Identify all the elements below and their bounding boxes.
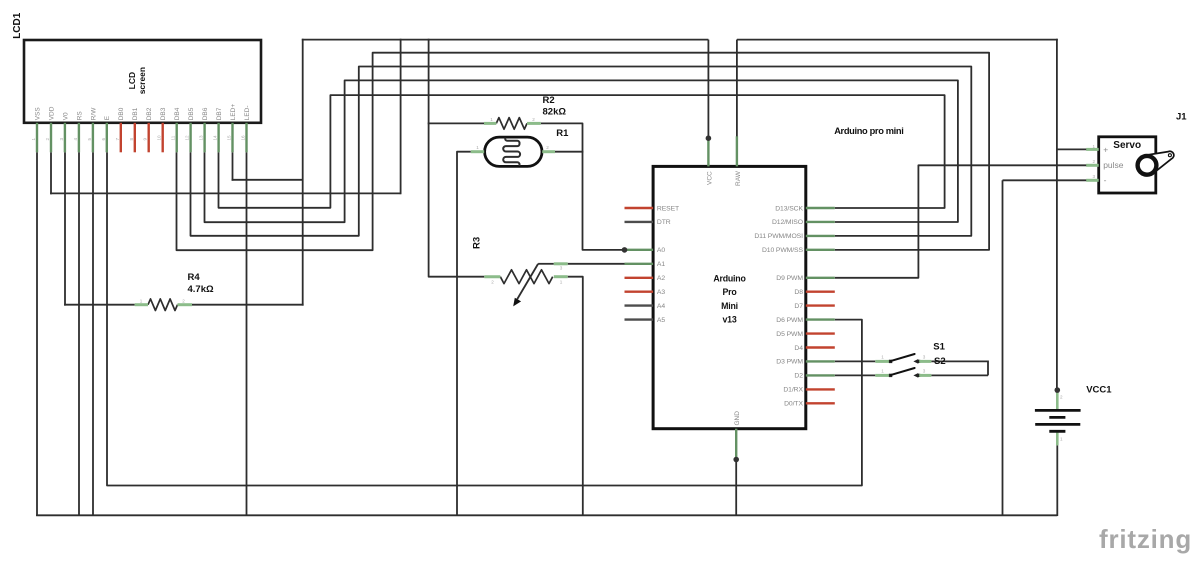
wire servo - pin left xyxy=(1003,179,1087,181)
svg-text:2: 2 xyxy=(1092,159,1095,164)
svg-text:5: 5 xyxy=(87,138,92,141)
svg-text:D3 PWM: D3 PWM xyxy=(776,359,803,366)
svg-text:Arduino pro mini: Arduino pro mini xyxy=(834,126,903,136)
LCD1 pin 11 leg (DB4) xyxy=(175,123,177,153)
switch S1 stub pin3 xyxy=(919,360,931,363)
svg-text:DB0: DB0 xyxy=(118,107,125,120)
svg-text:RAW: RAW xyxy=(735,170,742,186)
wire LCD R/W pin5 to GND bus xyxy=(92,152,94,516)
svg-text:2: 2 xyxy=(45,138,50,141)
svg-text:V0: V0 xyxy=(62,112,69,120)
svg-text:DB6: DB6 xyxy=(202,107,209,120)
battery VCC1 plate long top xyxy=(1035,409,1081,412)
svg-text:12: 12 xyxy=(185,135,190,141)
servo horn arm tip hole xyxy=(1168,154,1171,157)
svg-text:+: + xyxy=(1103,145,1108,155)
wire LCD VSS pin1 to GND bus (vertical) xyxy=(36,152,38,516)
svg-text:1: 1 xyxy=(31,138,36,141)
Arduino pin VCC leg xyxy=(707,137,709,166)
wire R3 pin1 right then down to GND bus xyxy=(568,277,583,516)
svg-text:D13/SCK: D13/SCK xyxy=(775,205,803,212)
wire S1 pin3 right xyxy=(931,360,988,362)
wire LCD V0 pin3 down to R4 xyxy=(64,152,66,305)
wire battery riser to servo + pin xyxy=(1056,148,1087,150)
svg-text:10: 10 xyxy=(157,135,162,141)
wire R1 pin2 to R2/A0 riser xyxy=(555,151,583,153)
LCD1 pin 1 leg (VSS) xyxy=(36,123,38,153)
svg-text:Servo: Servo xyxy=(1113,140,1141,151)
svg-text:15: 15 xyxy=(227,135,232,141)
photoresistor R1 meander track xyxy=(503,138,520,166)
switch S2 lever xyxy=(891,368,915,375)
svg-text:11: 11 xyxy=(171,135,176,140)
svg-text:S2: S2 xyxy=(934,356,946,367)
Arduino pin D1/RX leg xyxy=(806,388,835,390)
wire LCD DB5 pin12 to Arduino D11 (staircase) xyxy=(191,67,972,236)
resistor R2 stub pin2 xyxy=(527,122,541,125)
svg-text:4: 4 xyxy=(73,138,78,141)
servo stub pin2 (pulse) xyxy=(1086,164,1099,167)
svg-text:-: - xyxy=(1104,175,1107,185)
svg-text:D5 PWM: D5 PWM xyxy=(776,331,803,338)
svg-text:DB3: DB3 xyxy=(160,107,167,120)
Arduino pin DTR leg xyxy=(625,221,654,223)
wire Arduino GND pin down to GND bus xyxy=(735,459,737,517)
wire R3 wiper stub to A1 leg xyxy=(568,263,625,265)
Arduino pin A5 leg xyxy=(625,318,654,320)
svg-text:E: E xyxy=(104,115,111,120)
LCD1 pin 10 leg (DB3) xyxy=(161,123,163,153)
svg-text:D7: D7 xyxy=(794,303,803,310)
wire VCC riser x=428.6 down to R3 left xyxy=(429,39,485,277)
wire VCC top bus to Arduino VCC xyxy=(302,39,709,41)
svg-text:1: 1 xyxy=(140,299,143,304)
wire R4 pin2 to VCC riser xyxy=(192,304,304,306)
R3 wiper arrow xyxy=(517,264,538,299)
svg-text:J1: J1 xyxy=(1176,112,1187,123)
svg-text:LCD1: LCD1 xyxy=(12,12,23,39)
svg-text:2: 2 xyxy=(1060,395,1063,400)
svg-text:D4: D4 xyxy=(794,345,803,352)
svg-text:DB1: DB1 xyxy=(132,107,139,120)
svg-text:6: 6 xyxy=(101,138,106,141)
svg-text:13: 13 xyxy=(199,135,204,141)
svg-text:2: 2 xyxy=(546,145,549,150)
wire LCD E pin6 to Arduino D6 PWM (bottom route) xyxy=(107,152,862,485)
wire R2 pin1 to VCC riser xyxy=(428,122,484,124)
svg-text:DB2: DB2 xyxy=(146,107,153,120)
svg-text:16: 16 xyxy=(241,135,246,141)
svg-text:R/W: R/W xyxy=(90,107,97,121)
resistor R4 zigzag xyxy=(148,299,178,311)
svg-text:2: 2 xyxy=(491,280,494,285)
junction node VCC pin xyxy=(706,135,712,141)
servo stub pin1 (+) xyxy=(1086,148,1099,151)
switch S1 pivot dot xyxy=(889,360,892,363)
switch S2 stub pin3 xyxy=(919,374,931,377)
R1 stub pin2 xyxy=(542,150,555,153)
svg-text:D6 PWM: D6 PWM xyxy=(776,317,803,324)
junction node GND pin xyxy=(733,457,739,463)
wire LCD DB4 pin11 to Arduino D10 (staircase) xyxy=(177,53,990,251)
svg-text:DB4: DB4 xyxy=(174,107,181,120)
svg-text:RS: RS xyxy=(76,111,83,121)
svg-text:S1: S1 xyxy=(933,341,945,352)
Arduino pin D0/TX leg xyxy=(806,402,835,404)
svg-text:VSS: VSS xyxy=(34,107,41,121)
LCD1 pin 9 leg (DB2) xyxy=(147,123,149,153)
switch S1 stub pin1 xyxy=(875,360,889,363)
potentiometer R3 zigzag xyxy=(500,270,552,284)
battery VCC1 plate short bottom xyxy=(1049,430,1065,433)
svg-text:8: 8 xyxy=(129,138,134,141)
resistor R2 stub pin1 xyxy=(484,122,496,125)
switch S1 contact arrow xyxy=(913,359,918,364)
svg-text:VCC1: VCC1 xyxy=(1086,384,1112,395)
svg-text:A0: A0 xyxy=(657,247,665,254)
LCD1 pin 5 leg (R/W) xyxy=(92,123,94,153)
LCD1 pin 7 leg (DB0) xyxy=(120,123,122,153)
svg-text:1: 1 xyxy=(881,355,884,360)
wire Arduino D2 to switch S2 xyxy=(835,374,876,376)
svg-text:D8: D8 xyxy=(794,289,803,296)
battery VCC1 stub + terminal xyxy=(1056,391,1059,409)
wire LCD RS pin4 to GND bus xyxy=(78,152,80,516)
wire R3 wiper to Arduino A1 xyxy=(538,263,554,265)
wire battery+ riser x=1056.9 xyxy=(1056,39,1058,390)
LCD1 pin 6 leg (E) xyxy=(106,123,108,153)
wire GND bus (bottom horizontal net) xyxy=(36,514,1057,516)
svg-text:GND: GND xyxy=(734,411,741,426)
Arduino pin D8 leg xyxy=(806,291,835,293)
svg-text:D1/RX: D1/RX xyxy=(783,387,803,394)
wire LCD DB7 pin14 to Arduino D13 (staircase) xyxy=(219,95,945,208)
LCD1 pin 3 leg (V0) xyxy=(64,123,66,153)
svg-text:R4: R4 xyxy=(188,272,201,283)
switch S2 pivot dot xyxy=(889,374,892,377)
Arduino pin D3 PWM leg xyxy=(806,360,835,362)
wire LCD LED- pin16 to GND bus xyxy=(246,152,248,516)
photoresistor R1 body (stadium) xyxy=(485,137,542,166)
svg-text:VCC: VCC xyxy=(706,171,713,185)
svg-text:3: 3 xyxy=(560,265,563,270)
resistor R4 stub pin1 xyxy=(135,303,148,306)
Arduino pin A1 leg xyxy=(625,263,654,265)
svg-text:R2: R2 xyxy=(543,95,555,106)
svg-text:DB7: DB7 xyxy=(216,107,223,120)
Arduino pin D9 PWM leg xyxy=(806,277,835,279)
wire VDD riser up to VCC line xyxy=(400,39,402,195)
Arduino pin RESET leg xyxy=(625,207,654,209)
svg-text:3: 3 xyxy=(59,138,64,141)
svg-text:14: 14 xyxy=(213,135,218,141)
LCD1 pin 13 leg (DB6) xyxy=(203,123,205,153)
svg-text:2: 2 xyxy=(532,117,535,122)
servo horn arm xyxy=(1143,151,1174,175)
Arduino pin D5 PWM leg xyxy=(806,332,835,334)
Arduino Pro Mini U1 body xyxy=(653,166,806,428)
junction node A0 (R2/R1 to A0) xyxy=(622,247,628,253)
Arduino pin RAW leg xyxy=(736,136,738,166)
wire S1/S2 output junction vertical xyxy=(987,361,989,376)
svg-text:R1: R1 xyxy=(556,128,569,139)
svg-text:4.7kΩ: 4.7kΩ xyxy=(188,284,214,295)
Arduino pin D7 leg xyxy=(806,304,835,306)
svg-text:D0/TX: D0/TX xyxy=(784,401,803,408)
svg-text:1: 1 xyxy=(560,280,563,285)
svg-text:RESET: RESET xyxy=(657,205,679,212)
wire Arduino D3 PWM to switch S1 xyxy=(835,360,876,362)
switch S2 stub pin1 xyxy=(875,374,889,377)
LCD1 pin 2 leg (VDD) xyxy=(50,123,52,153)
svg-text:3: 3 xyxy=(923,369,926,374)
svg-text:fritzing: fritzing xyxy=(1099,524,1192,554)
svg-text:DTR: DTR xyxy=(657,219,671,226)
svg-text:D12/MISO: D12/MISO xyxy=(772,219,803,226)
wire LCD VDD pin2 down xyxy=(50,152,52,194)
svg-text:A5: A5 xyxy=(657,317,665,324)
resistor R2 zigzag xyxy=(496,118,527,130)
wire S2 pin3 right xyxy=(931,374,988,376)
svg-text:VDD: VDD xyxy=(48,106,55,120)
wire LCD LED+ pin15 down xyxy=(232,152,234,180)
Arduino pin D2 leg xyxy=(806,374,835,376)
svg-text:1: 1 xyxy=(490,117,493,122)
LCD display LCD1 body xyxy=(24,40,261,123)
battery VCC1 plate long bottom xyxy=(1035,423,1080,426)
Arduino pin A0 leg xyxy=(625,249,654,251)
svg-text:A4: A4 xyxy=(657,303,665,310)
svg-text:7: 7 xyxy=(115,138,120,141)
svg-text:LED-: LED- xyxy=(244,105,251,120)
svg-text:LED+: LED+ xyxy=(230,104,237,121)
LCD1 pin 16 leg (LED-) xyxy=(245,123,247,153)
Arduino pin A2 leg xyxy=(625,277,654,279)
svg-text:1: 1 xyxy=(1092,144,1095,149)
wire servo - riser down to GND bus xyxy=(1002,180,1004,516)
svg-text:9: 9 xyxy=(143,138,148,141)
wire VDD horizontal to riser xyxy=(50,192,401,194)
svg-text:D10 PWM/SS: D10 PWM/SS xyxy=(762,247,803,254)
svg-text:1: 1 xyxy=(1060,437,1063,442)
servo stub pin3 (-) xyxy=(1086,179,1099,182)
svg-text:82kΩ: 82kΩ xyxy=(543,107,567,118)
svg-text:pulse: pulse xyxy=(1103,160,1124,170)
R1 stub pin1 xyxy=(471,150,484,153)
Arduino pin GND leg xyxy=(735,429,737,460)
battery VCC1 stub - terminal xyxy=(1056,432,1059,445)
wire VCC drop to Arduino VCC pin xyxy=(707,40,709,139)
Arduino pin D11 PWM/MOSI leg xyxy=(806,235,835,237)
resistor R4 stub pin2 xyxy=(178,303,193,306)
svg-text:A3: A3 xyxy=(657,289,665,296)
LCD1 pin 14 leg (DB7) xyxy=(217,123,219,153)
Arduino pin A4 leg xyxy=(625,304,654,306)
Arduino pin D6 PWM leg xyxy=(806,318,835,320)
Arduino pin D4 leg xyxy=(806,346,835,348)
svg-text:A1: A1 xyxy=(657,261,665,268)
svg-text:2: 2 xyxy=(182,299,185,304)
wire R2 pin2 right then down to A0 node xyxy=(541,123,625,249)
R3 stub pin1 (right) xyxy=(554,275,568,278)
Arduino pin D10 PWM/SS leg xyxy=(806,249,835,251)
Arduino pin D12/MISO leg xyxy=(806,221,835,223)
wire RAW top bus to battery riser xyxy=(737,39,1058,41)
LCD1 pin 15 leg (LED+) xyxy=(231,123,233,153)
svg-text:D9 PWM: D9 PWM xyxy=(776,275,803,282)
svg-text:DB5: DB5 xyxy=(188,107,195,120)
svg-text:R3: R3 xyxy=(472,237,483,249)
switch S2 contact arrow xyxy=(913,373,918,378)
wire Arduino RAW riser xyxy=(736,40,738,137)
svg-text:3: 3 xyxy=(923,355,926,360)
wire LCD DB6 pin13 to Arduino D12 (staircase) xyxy=(205,80,958,222)
wire R1 pin1 left then down to GND bus xyxy=(457,152,471,516)
R3 stub pin3 (wiper) xyxy=(554,262,568,265)
LCD1 pin 8 leg (DB1) xyxy=(134,123,136,153)
svg-text:A2: A2 xyxy=(657,275,665,282)
servo horn hub xyxy=(1138,156,1157,175)
wire LED+ to VCC riser xyxy=(232,179,303,181)
junction node battery + xyxy=(1055,387,1061,393)
wire VCC riser x=302.7 (LED+/R4 net) xyxy=(302,39,304,306)
Arduino pin D13/SCK leg xyxy=(806,207,835,209)
LCD1 pin 12 leg (DB5) xyxy=(189,123,191,153)
LCD1 pin 4 leg (RS) xyxy=(78,123,80,153)
svg-text:3: 3 xyxy=(1092,174,1095,179)
svg-text:1: 1 xyxy=(881,369,884,374)
svg-text:D11 PWM/MOSI: D11 PWM/MOSI xyxy=(754,233,803,240)
svg-text:D2: D2 xyxy=(794,373,803,380)
switch S1 lever xyxy=(891,354,915,361)
wire Arduino D9 PWM to servo pulse xyxy=(835,165,1087,277)
servo J1 body xyxy=(1099,137,1156,193)
wire V0 to R4 pin1 xyxy=(64,304,135,306)
battery VCC1 plate short xyxy=(1049,416,1065,419)
wire battery - down to GND bus xyxy=(1056,445,1058,516)
svg-text:1: 1 xyxy=(476,145,479,150)
Arduino pin A3 leg xyxy=(625,291,654,293)
R3 stub pin2 (left) xyxy=(484,275,500,278)
